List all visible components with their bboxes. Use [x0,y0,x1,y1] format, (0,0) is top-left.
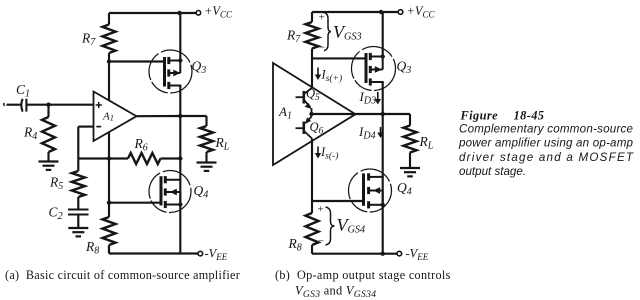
svg-text:+: + [319,13,325,24]
svg-text:(a) Basic circuit of common-s: (a) Basic circuit of common-source ampli… [5,268,240,282]
svg-text:−: − [319,42,325,53]
svg-text:driver stage and a MOSFET: driver stage and a MOSFET [459,151,634,164]
svg-text:A1: A1 [102,111,114,123]
svg-text:Complementary common-source: Complementary common-source [459,122,634,135]
svg-text:output stage.: output stage. [459,165,526,178]
svg-text:+: + [318,205,324,216]
svg-text:power amplifier using an op-am: power amplifier using an op-amp [458,137,634,150]
svg-text:(b) Op-amp output stage contr: (b) Op-amp output stage controls [275,268,451,282]
svg-text:−: − [318,236,324,247]
